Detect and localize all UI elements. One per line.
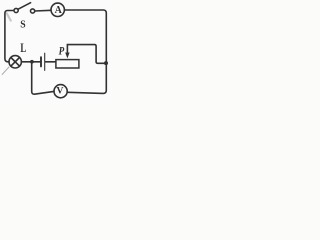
scan smudge below lamp xyxy=(2,67,9,75)
lamp X diagonal 1 xyxy=(11,58,20,67)
svg-text:P: P xyxy=(59,43,65,57)
scan smudge near top-left corner xyxy=(7,13,11,20)
junction node A dot xyxy=(30,60,34,64)
svg-text:A: A xyxy=(55,5,63,16)
switch S left terminal xyxy=(14,8,18,12)
svg-text:V: V xyxy=(56,87,63,97)
lamp X diagonal 2 xyxy=(11,58,20,67)
rheostat wiper arrowhead xyxy=(65,53,69,59)
wire junction A to battery xyxy=(34,61,41,63)
ammeter U1 circle xyxy=(51,3,64,16)
switch S lever xyxy=(18,3,31,10)
svg-text:L: L xyxy=(20,41,26,55)
wire right side below junction to bottom corner and left to voltmeter xyxy=(67,63,106,93)
wire lamp to junction A xyxy=(22,61,31,63)
battery long plate (positive) xyxy=(44,53,46,70)
rheostat body rectangle xyxy=(56,60,79,68)
wire voltmeter left to corner and up to junction A xyxy=(32,63,54,94)
wire left side (switch to lamp) xyxy=(5,11,14,62)
junction node B dot xyxy=(104,61,108,65)
voltmeter circle xyxy=(54,85,67,98)
svg-text:S: S xyxy=(20,18,25,30)
switch S right terminal xyxy=(30,9,34,13)
wire switch to ammeter xyxy=(35,9,51,12)
rheostat wiper riser wire xyxy=(67,45,104,64)
wire battery to rheostat xyxy=(45,61,55,63)
lamp L circle xyxy=(9,56,21,68)
wire ammeter to top-right corner and down right side xyxy=(65,10,107,63)
battery short plate (negative) xyxy=(40,57,42,66)
